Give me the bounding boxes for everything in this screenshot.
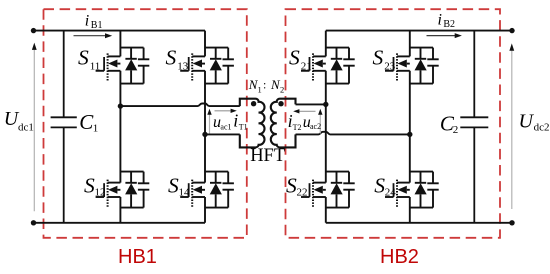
transistor S21 [301,48,355,84]
wire: leg B (S13/S14) [204,31,206,223]
svg-text:S: S [286,173,297,197]
svg-text:S: S [373,46,384,70]
node: DC port 1 bottom [31,220,36,225]
node: DC port 2 top [509,28,514,33]
svg-text:T2: T2 [293,123,302,132]
transformer T1 secondary winding [271,99,296,148]
arrow: i_B2 current arrow [427,35,457,37]
svg-text:i: i [85,12,89,29]
svg-text:ac1: ac1 [220,122,231,131]
svg-text:HFT: HFT [250,146,285,166]
svg-text:dc1: dc1 [18,121,34,133]
arrow: i_B1 current arrow [74,35,107,37]
svg-text:S: S [289,46,300,70]
transistor S13 [180,48,234,84]
svg-text:ac2: ac2 [310,122,321,131]
wire: leg B midpoint to transformer primary bottom [205,133,240,135]
arrow: U_dc2 voltage arrow [511,51,513,210]
node: leg B midpoint [202,132,207,137]
svg-text:S: S [84,173,95,197]
svg-text:S: S [166,46,177,70]
svg-text:T1: T1 [239,123,248,132]
svg-text:1: 1 [93,122,99,134]
svg-text:i: i [438,11,442,28]
svg-text:B2: B2 [443,19,455,30]
svg-text:23: 23 [384,61,396,73]
svg-text:21: 21 [301,61,312,73]
arrow: U_dc1 voltage arrow [33,50,35,212]
svg-text:2: 2 [453,124,459,136]
svg-text:11: 11 [90,61,101,73]
svg-text:S: S [374,173,385,197]
transistor S24 [385,172,439,208]
node: leg D midpoint [407,132,412,137]
transistor S12 [96,172,150,208]
svg-text:22: 22 [297,187,308,199]
svg-text:24: 24 [385,187,397,199]
wire: leg A (S11/S12) [119,31,121,223]
svg-text:HB1: HB1 [118,246,157,268]
svg-text:1: 1 [258,85,262,95]
wire: transformer secondary top to leg C midpoint [296,103,326,105]
HB1 boundary box [44,9,247,238]
wire: leg C (S21/S22) [325,31,327,223]
svg-text::: : [263,78,266,92]
node: leg C midpoint [323,102,328,107]
arrow: u_ac2 voltage arrow [319,114,321,133]
capacitor C2 branch [460,31,488,223]
wire: leg D (S23/S24) [409,31,411,223]
transformer secondary polarity dot [278,101,283,106]
HB2 boundary box [286,9,501,238]
wire: HB2 top rail [326,30,512,32]
capacitor C1 branch [51,31,77,223]
wire: transformer secondary bottom to leg D midpoint (hop over leg C) [296,132,410,135]
node: leg A midpoint [118,103,123,108]
node: DC port 1 top [31,28,36,33]
svg-text:13: 13 [177,61,189,73]
svg-text:12: 12 [95,187,106,199]
svg-text:HB2: HB2 [380,246,419,268]
svg-text:B1: B1 [91,20,103,31]
svg-text:14: 14 [179,187,191,199]
transformer T1 primary winding [240,99,265,148]
svg-text:S: S [168,173,179,197]
svg-text:S: S [78,46,89,70]
arrow: u_ac1 voltage arrow [209,114,211,133]
transistor S22 [301,172,355,208]
wire: HB2 bottom rail [326,222,512,224]
wire: leg A midpoint to transformer primary top (hop over leg B) [120,104,239,107]
transistor S11 [96,48,150,84]
wire: HB1 bottom rail [34,222,206,224]
transistor S14 [180,172,234,208]
node: DC port 2 bottom [509,220,514,225]
svg-text:dc2: dc2 [534,121,550,133]
transformer primary polarity dot [251,101,256,106]
svg-text:i: i [233,110,238,130]
svg-text:U: U [519,110,535,132]
wire: HB1 top rail [34,30,206,32]
arrow: i_T1 current arrow [215,110,232,112]
transistor S23 [385,48,439,84]
svg-text:2: 2 [280,85,284,95]
arrow: i_T2 current arrow [298,110,315,112]
